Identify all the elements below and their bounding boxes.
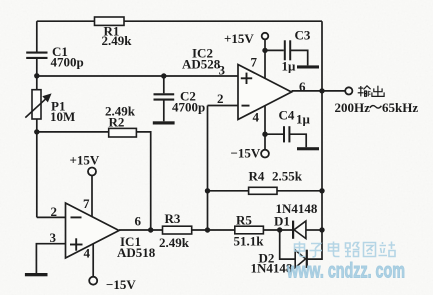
svg-text:2.55k: 2.55k [272,169,303,184]
svg-text:10M: 10M [50,109,75,124]
svg-text:www. cndzz. com: www. cndzz. com [286,260,405,283]
svg-text:2.49k: 2.49k [102,33,133,48]
svg-text:4700p: 4700p [51,55,84,70]
svg-text:2.49k: 2.49k [159,235,190,250]
svg-text:C3: C3 [295,28,311,43]
svg-text:4: 4 [253,110,260,125]
svg-text:3: 3 [50,230,57,245]
svg-text:1μ: 1μ [296,112,311,127]
svg-text:+15V: +15V [224,31,254,46]
svg-text:−15V: −15V [106,277,136,292]
svg-text:65kHz: 65kHz [382,100,418,115]
svg-text:C4: C4 [279,108,295,123]
svg-text:4: 4 [84,246,91,261]
svg-text:7: 7 [83,196,90,211]
svg-text:2: 2 [217,91,224,106]
svg-text:7: 7 [251,55,258,70]
svg-text:R5: R5 [236,212,252,227]
svg-text:AD518: AD518 [117,245,156,260]
svg-text:R4: R4 [249,169,265,184]
svg-text:1μ: 1μ [282,59,297,74]
svg-text:4700p: 4700p [172,100,205,115]
svg-text:3: 3 [219,63,226,78]
svg-text:R3: R3 [165,211,181,226]
svg-text:AD528: AD528 [182,56,221,71]
svg-text:6: 6 [299,79,306,94]
svg-text:51.1k: 51.1k [234,234,265,249]
svg-text:6: 6 [135,214,142,229]
svg-text:2: 2 [51,204,58,219]
svg-text:200Hz: 200Hz [335,100,371,115]
svg-text:D1: D1 [274,214,290,229]
svg-text:R2: R2 [109,115,125,130]
svg-text:+15V: +15V [70,153,100,168]
svg-text:−15V: −15V [231,146,261,161]
